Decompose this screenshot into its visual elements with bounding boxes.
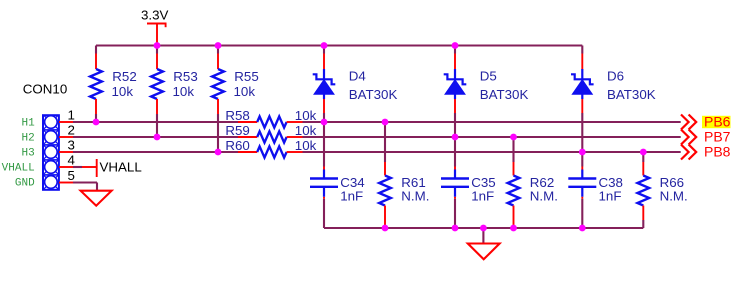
- svg-text:1nF: 1nF: [340, 189, 363, 204]
- wire pin5 to ground: [73, 183, 97, 191]
- resistor R53 10k: [151, 46, 198, 115]
- diode D5 BAT30K: [444, 46, 529, 114]
- junction at (218,152): [215, 149, 222, 156]
- resistor R55 10k: [212, 46, 259, 115]
- pin 3 stub: [59, 138, 75, 153]
- svg-text:N.M.: N.M.: [401, 189, 429, 204]
- svg-text:10k: 10k: [295, 123, 317, 138]
- svg-text:1nF: 1nF: [471, 189, 494, 204]
- wire D6 to PB8 net: [581, 113, 583, 152]
- junction at (324,45.5): [321, 42, 328, 49]
- wire to ground: [482, 228, 484, 244]
- junction at (643.3,152): [640, 149, 647, 156]
- wire C34 bottom: [323, 199, 325, 228]
- svg-text:3.3V: 3.3V: [141, 7, 169, 22]
- resistor R62 N.M.: [508, 162, 558, 228]
- wire ground rail: [324, 227, 643, 229]
- junction at (455,45.5): [452, 42, 459, 49]
- wire R66 top: [642, 152, 644, 162]
- svg-text:1: 1: [68, 108, 75, 123]
- resistor R58 10k: [225, 108, 316, 128]
- svg-text:VHALL: VHALL: [100, 160, 142, 175]
- svg-text:R60: R60: [225, 138, 249, 153]
- svg-text:5: 5: [68, 168, 75, 183]
- off-page connector PB8: [681, 144, 731, 160]
- wire PB8 net: [303, 151, 681, 153]
- junction at (157,137): [154, 134, 161, 141]
- svg-text:10k: 10k: [112, 84, 134, 99]
- connector CON10: [23, 82, 67, 190]
- wire 3.3V rail: [96, 44, 582, 46]
- wire H2: [73, 136, 238, 138]
- svg-text:H2: H2: [21, 133, 34, 145]
- wire H1: [73, 121, 238, 123]
- wire C35 bottom: [454, 199, 456, 228]
- svg-text:3: 3: [68, 138, 75, 153]
- svg-text:R55: R55: [234, 69, 258, 84]
- svg-text:R53: R53: [173, 69, 197, 84]
- capacitor C35 1nF: [441, 167, 496, 204]
- svg-text:D6: D6: [607, 69, 624, 84]
- svg-text:R58: R58: [225, 108, 249, 123]
- junction at (385,122): [382, 119, 389, 126]
- wire C38 bottom: [581, 199, 583, 228]
- net label H1: [21, 118, 35, 130]
- junction at (455,137): [452, 134, 459, 141]
- diode D4 BAT30K: [313, 46, 398, 114]
- wire C38 top: [581, 152, 583, 167]
- junction at (582.3,152): [579, 149, 586, 156]
- diode D6 BAT30K: [571, 46, 656, 114]
- svg-text:N.M.: N.M.: [660, 189, 688, 204]
- net label H3: [21, 148, 34, 160]
- off-page connector PB7: [681, 129, 731, 145]
- svg-text:PB6: PB6: [704, 114, 731, 130]
- junction at (483.4,228): [480, 225, 487, 232]
- svg-text:H3: H3: [21, 148, 34, 160]
- off-page connector PB6: [681, 114, 731, 130]
- svg-text:BAT30K: BAT30K: [607, 87, 656, 102]
- svg-text:1nF: 1nF: [599, 189, 622, 204]
- svg-text:R52: R52: [112, 69, 136, 84]
- wire D5 to PB7 net: [454, 113, 456, 137]
- svg-text:4: 4: [68, 153, 76, 168]
- pin 1 stub: [59, 108, 75, 123]
- capacitor C34 1nF: [310, 167, 365, 204]
- power symbol 3.3V: [141, 7, 169, 45]
- wire R61 top: [384, 122, 386, 162]
- svg-text:10k: 10k: [295, 108, 317, 123]
- svg-text:D5: D5: [480, 69, 497, 84]
- junction at (513.5,228): [510, 225, 517, 232]
- svg-text:10k: 10k: [173, 84, 195, 99]
- net label VHALL: [73, 159, 142, 177]
- svg-text:BAT30K: BAT30K: [480, 87, 529, 102]
- resistor R61 N.M.: [379, 162, 429, 228]
- svg-text:PB8: PB8: [704, 144, 731, 160]
- ground symbol middle: [468, 244, 500, 260]
- junction at (582.3,228): [579, 225, 586, 232]
- wire R52 to H1: [95, 114, 97, 122]
- svg-text:CON10: CON10: [23, 82, 67, 97]
- junction at (157,45.5): [154, 42, 161, 49]
- svg-text:D4: D4: [349, 69, 367, 84]
- capacitor C38 1nF: [568, 167, 623, 204]
- svg-text:PB7: PB7: [704, 129, 731, 145]
- wire H3: [73, 151, 238, 153]
- junction at (96,122): [93, 119, 100, 126]
- wire PB6 net: [303, 121, 681, 123]
- resistor R60 10k: [225, 138, 316, 158]
- pin 2 stub: [59, 123, 75, 138]
- svg-text:2: 2: [68, 123, 75, 138]
- svg-text:10k: 10k: [234, 84, 256, 99]
- svg-text:H1: H1: [21, 118, 35, 130]
- wire D4 to PB6 net: [323, 113, 325, 122]
- svg-text:BAT30K: BAT30K: [349, 87, 398, 102]
- svg-text:VHALL: VHALL: [2, 163, 35, 175]
- resistor R59 10k: [225, 123, 316, 143]
- ground symbol left: [81, 191, 112, 206]
- junction at (455,228): [452, 225, 459, 232]
- svg-text:N.M.: N.M.: [530, 189, 558, 204]
- wire R53 to H2: [156, 114, 158, 137]
- svg-text:R59: R59: [225, 123, 249, 138]
- wire PB7 net: [303, 136, 681, 138]
- wire C34 top: [323, 122, 325, 167]
- wire R62 top: [512, 137, 514, 162]
- svg-text:10k: 10k: [295, 138, 317, 153]
- junction at (324,122): [321, 119, 328, 126]
- pin 4 stub: [59, 153, 76, 168]
- svg-text:GND: GND: [15, 178, 35, 190]
- wire C35 top: [454, 137, 456, 167]
- net label H2: [21, 133, 34, 145]
- resistor R52 10k: [90, 46, 137, 115]
- net label VHALL pin: [2, 163, 35, 175]
- junction at (218,45.5): [215, 42, 222, 49]
- junction at (513.5,137): [510, 134, 517, 141]
- net label GND: [15, 178, 35, 190]
- pin 5 stub: [59, 168, 75, 183]
- wire R55 to H3: [217, 114, 219, 152]
- junction at (385,228): [382, 225, 389, 232]
- resistor R66 N.M.: [637, 162, 687, 228]
